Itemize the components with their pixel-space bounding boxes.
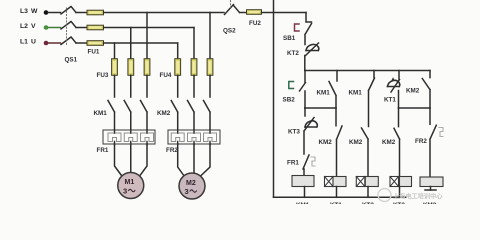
pushbutton SB1 actuator xyxy=(295,24,300,31)
thermal contact FR2 (NC) xyxy=(430,108,436,177)
svg-text:M2: M2 xyxy=(186,180,196,187)
time relay contact KT1 xyxy=(388,71,400,109)
svg-text:3: 3 xyxy=(123,187,127,196)
contactor KM1 main contact pole3 xyxy=(141,101,148,131)
svg-text:L2: L2 xyxy=(20,23,28,30)
svg-text:上海电工培训中心: 上海电工培训中心 xyxy=(393,193,443,201)
node L1 terminal dot xyxy=(44,41,49,46)
svg-text:FR1: FR1 xyxy=(97,147,109,154)
coil KT (branch3) box with X xyxy=(356,177,378,187)
svg-text:KM2: KM2 xyxy=(423,202,437,204)
switch QS1 blade pole2 xyxy=(61,22,76,30)
wire QS1 to FU1 row3 xyxy=(76,42,87,44)
svg-text:L1: L1 xyxy=(20,39,28,46)
thermal relay FR1 element2 xyxy=(124,133,137,142)
svg-text:V: V xyxy=(31,23,36,30)
time relay KT1 arrow xyxy=(391,77,395,81)
wire coil KM1 to rail xyxy=(304,187,306,198)
wire control drop to SB1 xyxy=(306,13,312,23)
terminal bar under coil KM2 xyxy=(425,189,436,191)
thermal relay FR1 box xyxy=(103,130,155,144)
thermal contact FR2 hook xyxy=(439,128,443,137)
svg-text:KM2: KM2 xyxy=(349,139,363,146)
time relay contact KT3 xyxy=(304,108,317,154)
svg-text:W: W xyxy=(31,8,38,15)
fuse FU1 pole2 xyxy=(87,25,104,30)
wire drop L1 branch1 xyxy=(114,43,116,59)
svg-text:FR2: FR2 xyxy=(415,138,427,145)
wire QS1 to FU1 row2 xyxy=(76,27,87,29)
svg-text:KM2: KM2 xyxy=(382,139,396,146)
coil KT (branch4) box with X xyxy=(390,177,412,187)
svg-text:SB1: SB1 xyxy=(283,35,296,42)
node L3 label xyxy=(20,8,38,15)
wire bus1 xyxy=(305,70,430,72)
fuse FU3 pole1 xyxy=(112,59,118,76)
coil KM2 xyxy=(420,177,443,187)
svg-text:QS2: QS2 xyxy=(223,28,236,35)
pushbutton SB2 actuator xyxy=(289,82,294,89)
wire drop L2 branch1 xyxy=(130,28,132,59)
wire bus2 segment1 xyxy=(305,107,336,109)
thermal relay FR2 element2 xyxy=(188,133,201,142)
contactor KM1 main contact pole2 xyxy=(124,101,131,131)
wire coil KM2 down xyxy=(430,187,432,191)
svg-text:3: 3 xyxy=(185,187,189,196)
wire QS2 to FU2 xyxy=(240,12,247,14)
thermal relay FR2 element1 xyxy=(171,133,184,142)
wire FU3 to KM1 contacts xyxy=(115,75,148,97)
svg-text:M1: M1 xyxy=(125,179,135,186)
svg-text:KT1: KT1 xyxy=(384,97,396,104)
wire L1 to QS1 (maroon) xyxy=(48,42,61,44)
contactor aux contact KM2 c xyxy=(394,108,400,177)
wire drop L3 branch1 xyxy=(146,13,148,59)
svg-text:QS1: QS1 xyxy=(65,57,78,64)
wire FR2 to motor M2 xyxy=(178,144,210,177)
pushbutton SB1 (NC stop) xyxy=(305,24,312,45)
switch QS1 linkage dashed xyxy=(66,8,68,46)
switch QS2 blade xyxy=(225,5,240,15)
svg-text:KM1: KM1 xyxy=(296,202,310,204)
wire FR1 to motor M1 xyxy=(115,144,148,176)
svg-text:KM1: KM1 xyxy=(94,110,108,117)
svg-text:KM1: KM1 xyxy=(317,90,331,97)
wire drop L2 branch2 xyxy=(193,28,195,59)
svg-text:L3: L3 xyxy=(20,8,28,15)
svg-text:KM2: KM2 xyxy=(157,110,171,117)
svg-text:KM2: KM2 xyxy=(319,139,333,146)
wire drop L3 branch2 xyxy=(209,13,211,59)
thermal contact FR1 hook xyxy=(311,157,315,166)
fuse FU4 pole1 xyxy=(175,59,181,76)
node L3 terminal dot xyxy=(44,10,49,15)
svg-text:FR2: FR2 xyxy=(166,147,178,154)
wire bus2 segment2 xyxy=(399,107,431,109)
svg-text:FU3: FU3 xyxy=(97,72,109,79)
thermal relay FR1 element1 xyxy=(108,133,121,142)
thermal relay FR2 box xyxy=(168,130,220,144)
wire L3 to QS1 xyxy=(48,12,61,14)
wire QS1 to FU1 row1 xyxy=(76,12,87,14)
svg-text:U: U xyxy=(31,39,36,46)
wire row1 FU1 to QS2 xyxy=(104,12,225,14)
wire drop L1 branch2 xyxy=(177,43,179,59)
coil KT (branch2) box with X xyxy=(325,177,347,187)
wire coil2 to rail xyxy=(336,187,338,198)
svg-text:FR1: FR1 xyxy=(287,160,299,167)
node L1 label xyxy=(20,39,36,46)
fuse FU4 pole2 xyxy=(191,59,197,76)
contactor KM1 main contact pole1 xyxy=(108,101,115,131)
fuse FU1 pole1 xyxy=(87,10,104,15)
fuse FU4 pole3 xyxy=(207,59,213,76)
fuse FU1 pole3 xyxy=(87,41,104,46)
wire coil3 to rail xyxy=(367,187,369,198)
contactor aux contact KM1 (second) xyxy=(369,71,375,127)
wire FU4 to KM2 contacts xyxy=(178,75,210,97)
contactor aux contact KM1 (self hold) xyxy=(329,71,337,109)
switch QS1 blade pole1 xyxy=(61,7,76,15)
fuse FU2 xyxy=(247,10,262,15)
svg-text:SB2: SB2 xyxy=(283,97,296,104)
thermal relay FR2 element3 xyxy=(204,133,217,142)
motor M2 xyxy=(179,173,205,199)
wire row3 FU1 to corner xyxy=(104,42,178,44)
pushbutton SB2 (NO start) xyxy=(300,71,306,109)
thermal relay FR1 element3 xyxy=(141,133,154,142)
svg-text:FU1: FU1 xyxy=(88,49,100,56)
svg-text:KM2: KM2 xyxy=(406,88,420,95)
contactor KM2 main contact pole1 xyxy=(171,101,178,131)
svg-text:KT3: KT3 xyxy=(393,202,405,204)
wire FU2 to control corner xyxy=(262,12,307,14)
switch QS2 linkage dashed xyxy=(230,1,232,8)
fuse FU3 pole2 xyxy=(128,59,134,76)
wire coil4 to rail xyxy=(399,187,401,198)
wire left control rail xyxy=(273,0,275,197)
motor M1 xyxy=(118,173,144,199)
svg-text:FU2: FU2 xyxy=(249,20,261,27)
svg-text:KT2: KT2 xyxy=(287,50,299,57)
wire bottom rail xyxy=(274,196,407,198)
contactor aux contact KM2 a xyxy=(336,108,342,177)
time relay contact KT2 xyxy=(305,43,319,71)
svg-text:KT1: KT1 xyxy=(330,202,342,204)
watermark ring xyxy=(378,189,391,202)
svg-text:KT3: KT3 xyxy=(288,129,300,136)
fuse FU3 pole3 xyxy=(144,59,150,76)
thermal contact FR1 (NC) xyxy=(303,155,309,176)
contactor aux contact KM2 (right) xyxy=(422,71,430,109)
wire row2 FU1 to corner xyxy=(104,27,195,29)
svg-text:KM1: KM1 xyxy=(349,90,363,97)
wire L2 to QS1 (green) xyxy=(48,27,61,29)
node L2 label xyxy=(20,23,36,30)
contactor KM2 main contact pole2 xyxy=(188,101,195,131)
node L2 terminal dot xyxy=(44,25,49,30)
coil KM1 xyxy=(292,176,314,187)
contactor KM2 main contact pole3 xyxy=(204,101,211,131)
svg-text:KT2: KT2 xyxy=(362,202,374,204)
svg-text:FU4: FU4 xyxy=(160,72,172,79)
switch QS1 blade pole3 xyxy=(61,37,76,45)
contactor aux contact KM2 b xyxy=(362,128,369,177)
